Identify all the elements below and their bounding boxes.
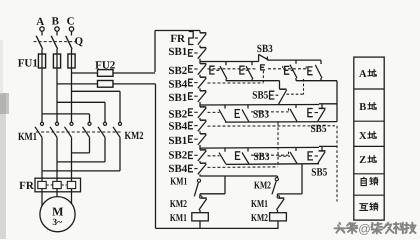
svg-text:KM1: KM1 (251, 199, 268, 210)
svg-text:KM1: KM1 (170, 213, 187, 224)
svg-text:SB2: SB2 (168, 149, 187, 161)
svg-text:Q: Q (75, 36, 84, 48)
svg-text:Z: Z (359, 155, 366, 166)
svg-text:@: @ (358, 222, 371, 236)
svg-text:SB2: SB2 (168, 65, 187, 77)
svg-text:SB3: SB3 (257, 43, 273, 55)
svg-text:KM2: KM2 (125, 130, 144, 142)
svg-text:FU1: FU1 (18, 58, 38, 70)
svg-text:FR: FR (170, 33, 186, 45)
svg-text:KM2: KM2 (251, 213, 268, 224)
svg-text:SB3: SB3 (253, 109, 269, 121)
svg-text:X: X (359, 131, 367, 142)
svg-text:A: A (359, 69, 367, 80)
svg-text:SB1: SB1 (168, 46, 187, 58)
svg-text:KM2: KM2 (170, 199, 187, 210)
svg-text:C: C (67, 16, 75, 28)
svg-text:SB1: SB1 (168, 135, 187, 147)
svg-text:SB5: SB5 (311, 123, 327, 135)
svg-text:SB4: SB4 (168, 163, 187, 175)
svg-text:SB4: SB4 (168, 121, 187, 133)
svg-text:SB5: SB5 (252, 89, 268, 101)
svg-text:SB3: SB3 (254, 151, 270, 163)
svg-text:KM1: KM1 (18, 131, 37, 143)
svg-text:SB2: SB2 (168, 108, 187, 120)
svg-text:3~: 3~ (52, 218, 62, 228)
svg-text:A: A (36, 16, 44, 28)
svg-text:FR: FR (19, 180, 35, 192)
svg-text:FU2: FU2 (95, 59, 116, 71)
svg-text:SB4: SB4 (168, 78, 187, 90)
svg-text:M: M (52, 205, 63, 219)
svg-text:KM1: KM1 (170, 176, 187, 187)
svg-text:SB5: SB5 (311, 167, 327, 179)
svg-text:SB1: SB1 (168, 92, 187, 104)
svg-text:KM2: KM2 (254, 180, 271, 191)
svg-text:B: B (52, 16, 60, 28)
svg-text:B: B (359, 102, 366, 113)
